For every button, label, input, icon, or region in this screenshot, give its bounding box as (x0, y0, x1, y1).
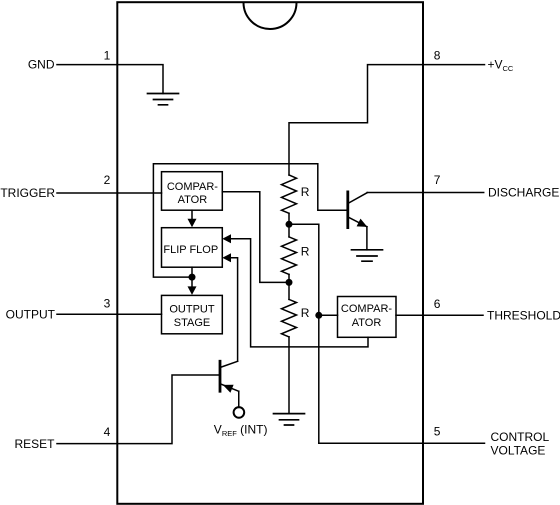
wire: node A to control voltage line (289, 224, 319, 443)
resistor R (top) (282, 175, 297, 213)
notch (pin-1 indicator) (244, 3, 297, 30)
wire: RESET pin 4 to Q2 base (57, 375, 219, 444)
svg-text:4: 4 (104, 425, 111, 439)
transistor Q2 collector (220, 361, 238, 367)
svg-text:COMPAR-: COMPAR- (341, 303, 392, 315)
output stage U4 (162, 295, 223, 333)
svg-text:R: R (301, 245, 310, 259)
svg-text:FLIP FLOP: FLIP FLOP (163, 244, 218, 256)
wire: Q2 emitter to Vref (238, 391, 240, 407)
wire: comparator U1 output to flip flop (arrow down) (191, 210, 193, 219)
svg-text:VREF (INT): VREF (INT) (214, 423, 268, 439)
wire: +Vcc pin 8 to divider top (289, 65, 485, 175)
svg-text:DISCHARGE: DISCHARGE (488, 186, 559, 200)
svg-text:R: R (301, 185, 310, 199)
svg-text:GND: GND (28, 58, 55, 72)
wire: R bottom to ground (288, 337, 290, 414)
svg-text:THRESHOLD: THRESHOLD (487, 309, 560, 323)
svg-text:5: 5 (434, 425, 441, 439)
svg-text:OUTPUT: OUTPUT (6, 307, 56, 321)
junction dot: node A (R1/R2) (286, 221, 293, 228)
resistor R (bottom) (282, 299, 297, 337)
svg-text:8: 8 (434, 49, 441, 63)
wire: flip flop to output stage (arrow down) (191, 267, 193, 287)
transistor Q1 (discharge) base bar (346, 192, 349, 228)
IC body outline (117, 2, 423, 504)
svg-text:ATOR: ATOR (352, 317, 382, 329)
svg-text:RESET: RESET (14, 437, 55, 451)
Vref terminal circle (234, 407, 245, 418)
ground symbol (Q1 emitter) (352, 250, 383, 261)
svg-text:6: 6 (434, 297, 441, 311)
wire: R middle to R bottom (288, 274, 290, 299)
wire: THRESHOLD pin 6 to comparator U2 (396, 314, 483, 316)
wire: flip flop output feedback to discharge transistor base (153, 164, 346, 277)
wire: TRIGGER pin 2 to comparator U1 (57, 192, 162, 194)
junction dot: flip flop output node (189, 274, 196, 281)
svg-text:+VCC: +VCC (488, 58, 514, 73)
wire: node C to comparator U2 (319, 314, 338, 316)
svg-text:2: 2 (104, 173, 111, 187)
transistor Q1 emitter (arrow) (348, 217, 367, 227)
transistor Q1 collector (348, 193, 367, 204)
wire: comparator U2 output to flip flop (arrow) (231, 239, 368, 347)
transistor Q2 emitter (arrow toward base) (220, 384, 239, 392)
svg-text:3: 3 (104, 297, 111, 311)
comparator U1 (162, 172, 223, 211)
comparator U2 (338, 297, 397, 338)
transistor Q2 (reset) base bar (219, 361, 222, 391)
wire: CONTROL VOLTAGE pin 5 (319, 442, 485, 444)
wire: flip flop lower input from Q2 collector (arrow) (231, 258, 238, 362)
ground symbol (divider) (274, 414, 305, 425)
svg-text:R: R (301, 306, 310, 320)
svg-text:COMPAR-: COMPAR- (167, 181, 218, 193)
svg-text:7: 7 (434, 173, 441, 187)
svg-text:OUTPUT: OUTPUT (169, 303, 215, 315)
svg-text:ATOR: ATOR (178, 194, 208, 206)
wire: Q1 emitter to ground (366, 227, 368, 250)
wire: comparator U1 output to divider node B (222, 192, 286, 283)
junction dot: node B (R2/R3) (286, 279, 293, 286)
wire: R top to R middle (288, 213, 290, 237)
ground symbol (pin 1) (148, 94, 179, 105)
svg-text:VOLTAGE: VOLTAGE (491, 444, 546, 458)
svg-text:STAGE: STAGE (174, 317, 210, 329)
wire: GND pin 1 to ground (57, 65, 163, 94)
junction dot: node C (control / threshold comparator input) (315, 312, 322, 319)
wire: OUTPUT pin 3 to output stage (57, 313, 162, 315)
resistor R (middle) (282, 237, 297, 275)
svg-text:TRIGGER: TRIGGER (0, 186, 55, 200)
svg-text:1: 1 (104, 49, 111, 63)
flip flop U3 (162, 228, 223, 268)
wire: DISCHARGE pin 7 to Q1 collector (367, 192, 484, 194)
svg-text:CONTROL: CONTROL (491, 430, 550, 444)
